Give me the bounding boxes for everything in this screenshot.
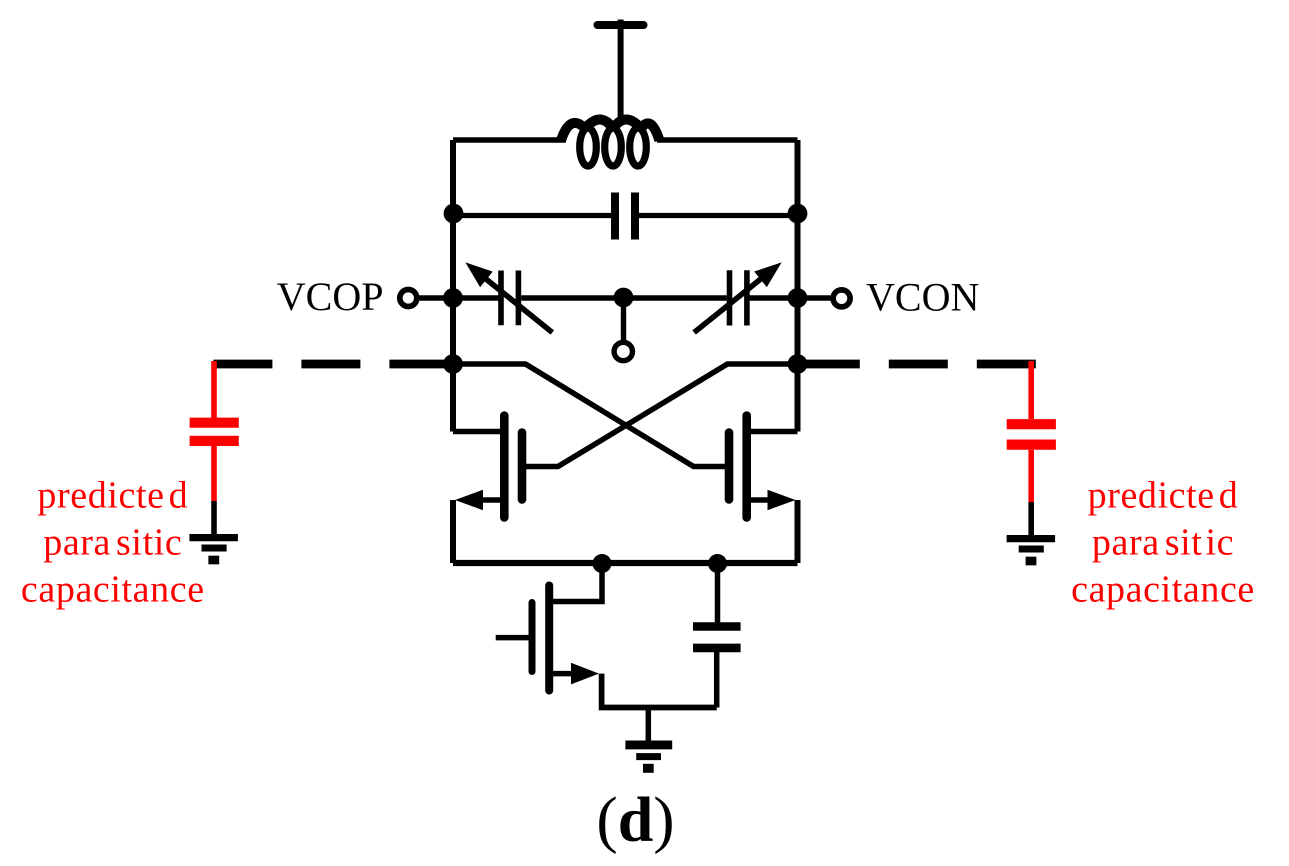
right rail wire [795, 140, 801, 432]
wire left parasitic bottom (red) [211, 446, 217, 501]
wire M2 source [751, 497, 775, 503]
transistor M1 channel [500, 416, 509, 518]
wire right parasitic top (red) [1028, 361, 1034, 419]
node dot tuning center [614, 288, 634, 308]
varactor CV1 left plate [498, 271, 504, 326]
terminal VCON [833, 290, 850, 307]
transistor M2 channel [742, 416, 751, 518]
node dot tail right [708, 554, 727, 573]
capacitor C2 top plate [693, 622, 741, 631]
wire center node to tuning terminal [621, 298, 626, 342]
dashed wire to right parasitic [798, 360, 1036, 369]
transistor M3 gate bar [529, 603, 536, 672]
svg-text:capacitance: capacitance [21, 569, 205, 611]
ground main [625, 745, 672, 768]
capacitor Cpar-left top plate [190, 418, 239, 428]
transistor M3 channel [545, 586, 553, 691]
wire M1 source to tail rail [450, 500, 456, 563]
arrow M3 source [571, 663, 599, 685]
wire rail to varactor CV1 [453, 295, 499, 300]
capacitor Cpar-right bottom plate [1007, 440, 1056, 450]
wire M3 source down [602, 674, 717, 708]
capacitor C2 bottom plate [693, 644, 741, 653]
left rail wire [450, 140, 456, 432]
transistor M1 gate bar [518, 433, 527, 500]
varactor CV2 left plate [727, 270, 733, 325]
inductor L1 loop 1 [580, 128, 597, 166]
wire M1 drain [453, 429, 501, 435]
wire cross-couple right node to M1 gate [526, 364, 798, 467]
arrow M1 source [455, 490, 483, 510]
wire right parasitic to ground (black) [1028, 502, 1034, 535]
svg-text:(d): (d) [596, 784, 674, 855]
inductor L1 top arcs [561, 120, 660, 141]
varactor CV2 right plate [744, 270, 750, 325]
svg-text:VCON: VCON [866, 275, 979, 320]
arrow M2 source [768, 490, 796, 510]
wire VDD to inductor center tap [618, 20, 624, 124]
varactor CV2 arrow [694, 276, 764, 332]
node dot left varactor row [443, 288, 463, 308]
capacitor C1 left plate [611, 193, 619, 240]
capacitor Cpar-left bottom plate [190, 436, 239, 446]
wire M1 source [477, 497, 501, 503]
node dot left cap row [444, 204, 464, 224]
wire tail node to M3 drain [553, 563, 602, 602]
wire left parasitic top (red) [211, 361, 217, 418]
wire M2 drain [751, 429, 798, 435]
wire M3 gate stub [496, 635, 529, 641]
capacitor Cpar-right top plate [1007, 419, 1056, 429]
wire left parasitic to ground (black) [211, 501, 217, 534]
wire top rail left [453, 137, 566, 143]
VDD supply bar [598, 21, 644, 29]
terminal VCOP [400, 290, 417, 307]
wire right parasitic bottom (red) [1028, 450, 1034, 502]
dashed wire to left parasitic [213, 360, 453, 369]
node dot right cap row [788, 204, 808, 224]
wire tail node to capacitor C2 [715, 563, 721, 623]
wire capacitor C2 down [714, 652, 720, 708]
wire VCOP to rail [420, 295, 454, 300]
ground right parasitic [1007, 539, 1056, 561]
svg-text:VCOP: VCOP [277, 274, 384, 319]
terminal tuning port [614, 342, 632, 360]
node dot left dashed row [443, 354, 463, 374]
wire to ground [646, 708, 652, 742]
wire cap row left [453, 213, 611, 218]
ground left parasitic [189, 538, 238, 560]
transistor M2 gate bar [725, 433, 734, 500]
wire cap row right [639, 213, 798, 218]
node dot right varactor row [788, 288, 808, 308]
inductor L1 loop 3 [630, 128, 647, 166]
node dot right dashed row [788, 354, 808, 374]
node dot tail left [593, 554, 612, 573]
varactor CV1 right plate [516, 271, 522, 326]
varactor CV1 arrow [483, 277, 552, 333]
wire cross-couple left node to M2 gate [453, 364, 726, 467]
inductor L1 loop 2 [605, 128, 622, 166]
tail rail wire [453, 560, 798, 566]
wire varactor CV2 to VCON [750, 295, 831, 300]
wire M3 source [553, 671, 574, 677]
wire top rail right [657, 137, 798, 143]
wire varactor CV1 to center node [521, 295, 727, 300]
wire M2 source to tail rail [795, 500, 801, 563]
capacitor C1 right plate [631, 193, 639, 240]
svg-text:capacitance: capacitance [1071, 569, 1255, 611]
